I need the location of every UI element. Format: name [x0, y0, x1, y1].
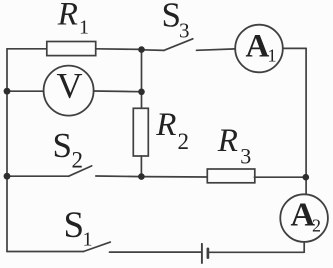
wire battery to A2 — [209, 251, 305, 253]
svg-text:3: 3 — [179, 19, 190, 43]
switch S1 — [84, 242, 111, 251]
wire R1 to node A — [96, 48, 142, 51]
node B junction dot (V tap upper) — [4, 88, 11, 95]
wire node C to R3 — [141, 176, 207, 178]
wire S1 fixed contact to battery — [110, 251, 202, 253]
wire V lead right — [94, 90, 142, 93]
wire bottom left — [7, 251, 84, 253]
wire R3 to node D — [254, 176, 305, 178]
svg-text:A: A — [246, 29, 270, 65]
battery long plate — [201, 244, 203, 263]
wire middle branch upper — [141, 50, 143, 109]
svg-text:V: V — [57, 66, 83, 106]
resistor R2 — [133, 108, 148, 156]
svg-text:S: S — [64, 205, 85, 246]
wire middle branch lower — [140, 156, 142, 177]
svg-text:R: R — [217, 123, 238, 159]
svg-text:S: S — [53, 126, 72, 165]
wire S2 lead left — [7, 175, 68, 177]
wire S3 fixed contact to A1 — [197, 49, 236, 50]
node junction dot V right — [138, 89, 145, 96]
svg-text:1: 1 — [268, 46, 277, 66]
svg-text:2: 2 — [312, 216, 321, 236]
svg-text:3: 3 — [240, 143, 251, 168]
wire top left to R1 — [7, 48, 47, 50]
wire V lead left — [7, 90, 44, 92]
node junction dot S2 left — [4, 173, 11, 180]
svg-text:R: R — [155, 107, 176, 143]
wire right rail — [305, 48, 307, 194]
switch S2 — [68, 166, 91, 176]
node D junction dot — [303, 174, 310, 181]
voltmeter V — [44, 66, 94, 116]
svg-text:1: 1 — [83, 229, 93, 251]
svg-text:1: 1 — [79, 17, 89, 39]
resistor R1 — [47, 42, 96, 56]
wire left rail — [6, 49, 8, 252]
wire A1 to right rail — [283, 47, 306, 49]
switch S3 — [164, 39, 193, 51]
resistor R3 — [207, 169, 255, 183]
ammeter A2 — [280, 194, 328, 242]
wire S2 fixed contact to node C — [96, 175, 142, 178]
ammeter A1 — [235, 25, 283, 73]
node A junction dot — [138, 46, 145, 53]
wire S3 lead — [142, 49, 164, 52]
svg-text:2: 2 — [178, 129, 190, 154]
node C junction dot — [138, 173, 145, 180]
wire A2 bottom lead — [303, 242, 305, 252]
svg-text:2: 2 — [72, 148, 84, 173]
svg-text:R: R — [57, 0, 78, 33]
battery short plate — [207, 249, 210, 258]
